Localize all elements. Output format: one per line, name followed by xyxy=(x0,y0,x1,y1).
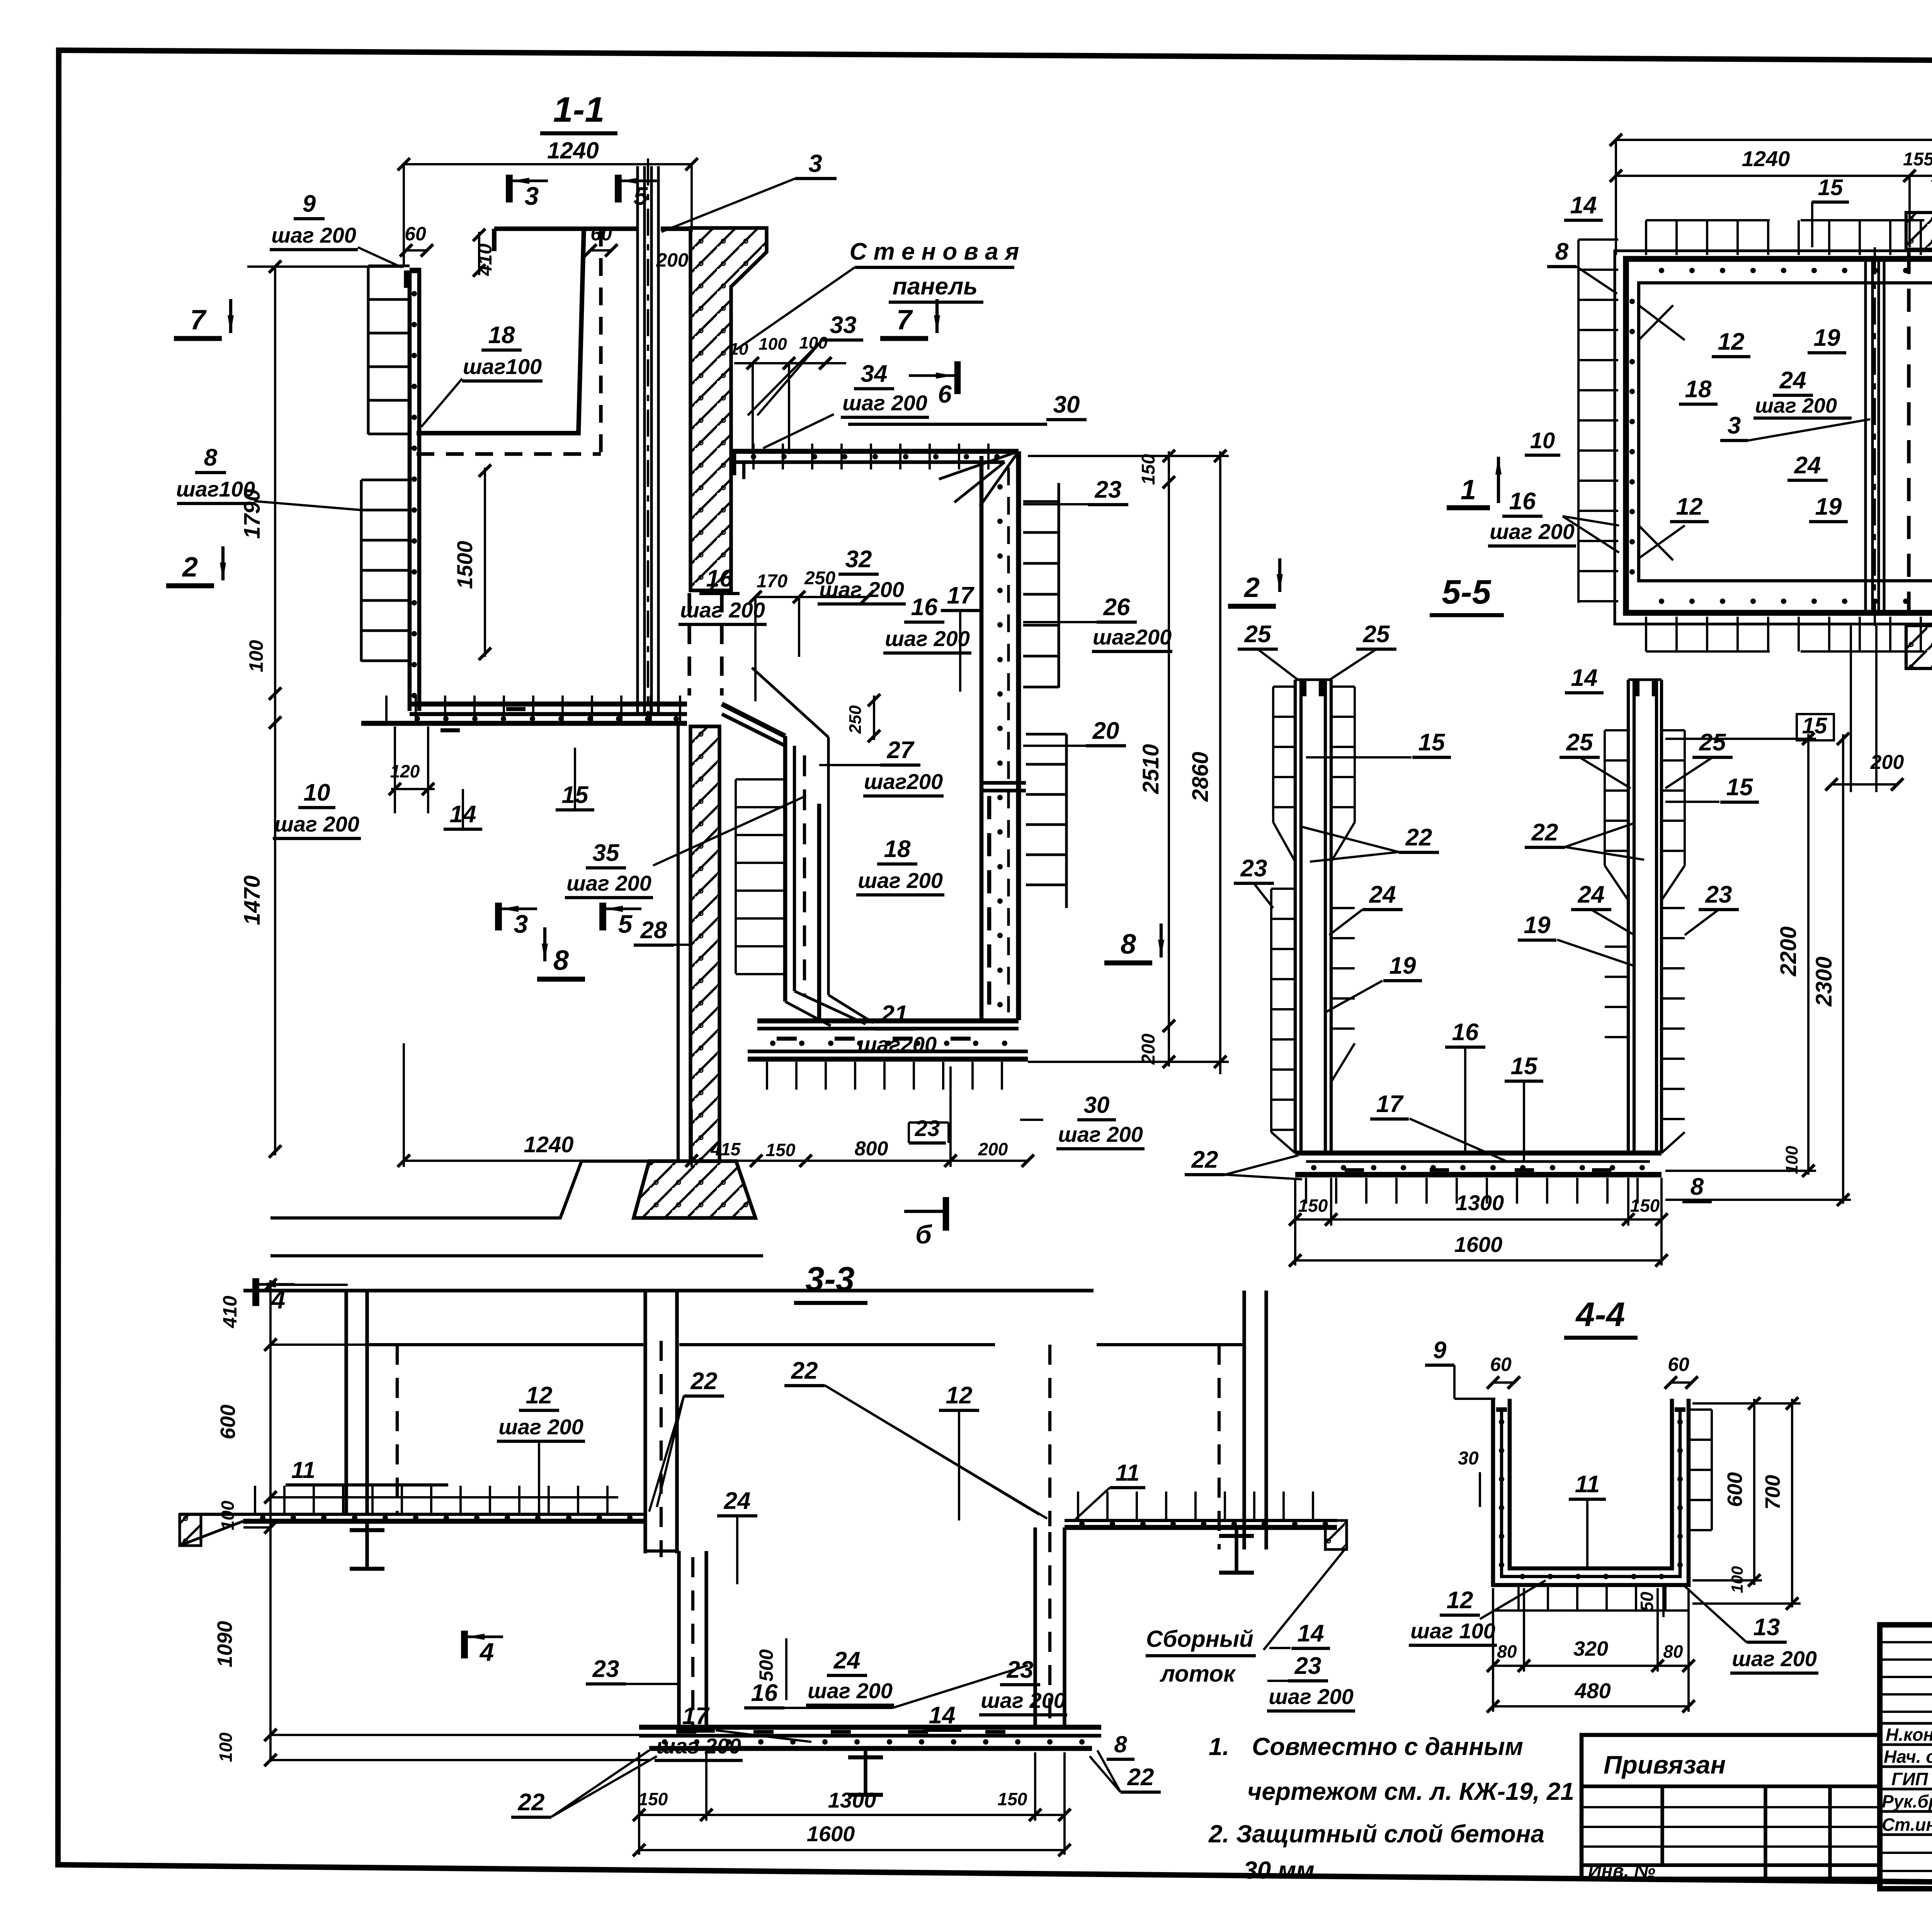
svg-text:200: 200 xyxy=(1870,751,1904,774)
svg-text:2510: 2510 xyxy=(1138,744,1163,794)
svg-text:25: 25 xyxy=(1363,621,1390,648)
5-5 wall taper diagonals right xyxy=(1605,866,1628,900)
3-3 right anchor I-beam xyxy=(1235,1527,1238,1573)
svg-text:320: 320 xyxy=(1573,1637,1608,1660)
svg-text:10: 10 xyxy=(304,779,330,806)
svg-text:2: 2 xyxy=(182,552,198,583)
1-1 floor band hooks xyxy=(440,728,460,733)
svg-text:12: 12 xyxy=(526,1382,553,1409)
svg-text:11: 11 xyxy=(291,1457,315,1483)
2-2 main thick rect xyxy=(1626,259,1932,613)
1-1 ground profile lines xyxy=(270,1161,649,1218)
svg-text:2860: 2860 xyxy=(1188,752,1213,802)
4-4 right ladder xyxy=(1711,1410,1713,1530)
svg-text:60: 60 xyxy=(1668,1354,1689,1375)
svg-text:14: 14 xyxy=(1298,1620,1324,1647)
1-1 floor step diagonals xyxy=(722,704,785,736)
svg-text:Ст.инж.: Ст.инж. xyxy=(1882,1815,1932,1835)
1-1 right band hooks xyxy=(732,451,736,475)
1-1 bottom band hook dashes xyxy=(777,1037,797,1041)
svg-text:1240: 1240 xyxy=(1742,146,1790,171)
svg-text:13: 13 xyxy=(1753,1614,1780,1641)
svg-text:60: 60 xyxy=(1490,1354,1512,1375)
svg-text:16: 16 xyxy=(751,1680,778,1706)
privyazan table box xyxy=(1582,1735,1880,1879)
1-1 left wall rebar L-bar xyxy=(408,270,412,711)
1-1 right wall joint line xyxy=(980,781,1026,784)
svg-text:шаг 200: шаг 200 xyxy=(656,1734,741,1758)
svg-text:155: 155 xyxy=(1903,149,1932,170)
svg-text:100: 100 xyxy=(759,335,787,354)
svg-text:24: 24 xyxy=(1369,881,1396,908)
svg-text:4-4: 4-4 xyxy=(1575,1295,1625,1333)
svg-text:3: 3 xyxy=(808,150,822,177)
svg-text:22: 22 xyxy=(1191,1146,1218,1173)
svg-text:12: 12 xyxy=(1447,1587,1473,1614)
svg-text:25: 25 xyxy=(1699,729,1726,756)
svg-text:500: 500 xyxy=(755,1649,777,1682)
svg-text:20: 20 xyxy=(1092,718,1119,744)
svg-text:8: 8 xyxy=(1121,929,1136,960)
svg-text:19: 19 xyxy=(1815,493,1842,520)
svg-text:30: 30 xyxy=(1053,391,1080,418)
1-1 marker b bottom xyxy=(904,1210,946,1213)
svg-text:100: 100 xyxy=(799,333,828,352)
5-5 wall taper diagonals left xyxy=(1273,822,1295,862)
1-1 bottom-right pit outline xyxy=(817,804,821,1020)
1-1 right wall dashed lower xyxy=(987,796,992,1020)
3-3 top slab line xyxy=(243,1289,1094,1292)
svg-text:шаг 200: шаг 200 xyxy=(1755,394,1837,417)
1-1 cut flag 3 bottom xyxy=(495,903,502,930)
svg-text:1-1: 1-1 xyxy=(553,90,605,129)
svg-text:17: 17 xyxy=(682,1703,710,1730)
svg-text:30 мм: 30 мм xyxy=(1243,1856,1315,1884)
svg-text:22: 22 xyxy=(1127,1764,1154,1791)
svg-text:26: 26 xyxy=(1103,594,1130,621)
svg-text:600: 600 xyxy=(216,1405,240,1439)
svg-text:1300: 1300 xyxy=(828,1788,876,1812)
svg-text:12: 12 xyxy=(1718,328,1745,355)
svg-text:28: 28 xyxy=(640,917,667,944)
1-1 recess outline xyxy=(417,229,584,433)
3-3 left wall xyxy=(344,1291,348,1515)
3-3 right wall xyxy=(1242,1291,1246,1549)
svg-text:27: 27 xyxy=(887,737,915,764)
svg-text:1240: 1240 xyxy=(524,1132,573,1157)
svg-text:шаг 200: шаг 200 xyxy=(858,868,943,893)
svg-text:шаг 200: шаг 200 xyxy=(566,871,651,895)
svg-text:8: 8 xyxy=(1114,1731,1127,1757)
4-4 dims right 600 700 xyxy=(1753,1399,1755,1585)
svg-text:19: 19 xyxy=(1814,325,1840,351)
svg-text:1240: 1240 xyxy=(547,138,599,163)
1-1 wall joint bundle xyxy=(636,166,639,713)
svg-text:Нач. о-д: Нач. о-д xyxy=(1884,1747,1932,1767)
title block left table rows xyxy=(1880,1641,1932,1643)
svg-text:150: 150 xyxy=(998,1789,1027,1809)
svg-text:Инв. №: Инв. № xyxy=(1588,1861,1655,1881)
svg-text:шаг200: шаг200 xyxy=(1093,625,1172,649)
svg-text:250: 250 xyxy=(804,568,835,588)
3-3 pit left wall xyxy=(677,1551,680,1727)
3-3 left dim chain xyxy=(269,1280,272,1762)
1-1 right ladder boxes xyxy=(1057,483,1060,688)
svg-text:3: 3 xyxy=(525,182,539,210)
1-1 right top band rebar xyxy=(731,449,1019,454)
svg-text:шаг 200: шаг 200 xyxy=(808,1679,893,1703)
1-1 wall top hook xyxy=(404,270,410,288)
1-1 inner ladder boxes xyxy=(735,779,737,974)
1-1 bottom dim chain xyxy=(404,1160,1028,1162)
svg-text:шаг100: шаг100 xyxy=(176,477,255,501)
2-2 top band dots xyxy=(1659,268,1664,273)
svg-text:25: 25 xyxy=(1244,621,1272,648)
svg-text:415: 415 xyxy=(711,1139,741,1159)
svg-text:шаг 200: шаг 200 xyxy=(498,1415,583,1439)
1-1 lower wall inner lines xyxy=(677,723,680,1161)
svg-text:1500: 1500 xyxy=(452,541,477,589)
2-2 panel hatch top xyxy=(1906,213,1932,249)
svg-text:25: 25 xyxy=(1566,729,1594,756)
svg-text:2: 2 xyxy=(1243,572,1260,603)
3-3 cut flag 4 bottom xyxy=(461,1631,468,1658)
svg-text:34: 34 xyxy=(861,361,888,387)
svg-text:23: 23 xyxy=(592,1656,619,1682)
svg-text:250: 250 xyxy=(846,705,865,734)
3-3 left slab band xyxy=(243,1513,645,1516)
1-1 right dim chain 150 2510 200 xyxy=(1168,451,1170,1066)
3-3 right band end hatch xyxy=(1325,1520,1347,1549)
svg-text:19: 19 xyxy=(1524,912,1551,939)
svg-text:17: 17 xyxy=(1376,1091,1404,1117)
svg-text:700: 700 xyxy=(1761,1475,1784,1510)
svg-text:2200: 2200 xyxy=(1776,926,1801,976)
svg-text:100: 100 xyxy=(218,1500,238,1530)
4-4 bottom comb xyxy=(1517,1585,1520,1611)
svg-text:10: 10 xyxy=(730,340,748,359)
svg-text:9: 9 xyxy=(1433,1337,1447,1364)
svg-text:шаг 200: шаг 200 xyxy=(1490,519,1575,544)
title block outer xyxy=(1880,1625,1932,1889)
svg-text:5: 5 xyxy=(618,910,633,938)
1-1 cut flag 5 top xyxy=(615,175,622,202)
svg-text:шаг 100: шаг 100 xyxy=(1410,1619,1495,1643)
svg-text:170: 170 xyxy=(757,571,787,592)
1-1 left ladder upper xyxy=(367,266,369,434)
svg-text:ГИП: ГИП xyxy=(1891,1769,1928,1789)
svg-text:шаг 200: шаг 200 xyxy=(274,812,359,836)
svg-text:24: 24 xyxy=(833,1647,861,1674)
svg-text:11: 11 xyxy=(1575,1471,1600,1498)
1-1 cut flag 5 bottom xyxy=(599,903,606,930)
2-2 center joint bundle xyxy=(1864,259,1867,613)
3-3 pit bottom I-beam xyxy=(864,1748,867,1795)
svg-text:Сборный: Сборный xyxy=(1146,1626,1253,1652)
svg-text:16: 16 xyxy=(911,594,938,621)
3-3 right slab band xyxy=(1065,1519,1337,1522)
3-3 second slab line xyxy=(365,1343,643,1346)
svg-text:шаг 200: шаг 200 xyxy=(885,626,970,651)
svg-text:8: 8 xyxy=(553,945,569,976)
2-2 panel hatch bottom xyxy=(1906,626,1932,668)
svg-text:24: 24 xyxy=(724,1488,751,1514)
svg-text:33: 33 xyxy=(830,312,857,338)
svg-text:15: 15 xyxy=(1726,774,1753,801)
2-2 outer rect xyxy=(1615,251,1932,624)
3-3 cut flag 4 top xyxy=(252,1278,259,1306)
1-1 inner corner fans bottom xyxy=(785,1002,831,1026)
svg-text:1: 1 xyxy=(1461,474,1476,505)
5-5 total dim 1600 xyxy=(1295,1259,1662,1262)
3-3 total dim 1600 xyxy=(639,1849,1065,1851)
svg-text:7: 7 xyxy=(896,304,913,335)
svg-text:1.: 1. xyxy=(1209,1733,1229,1760)
3-3 left anchor I-beam xyxy=(365,1521,369,1569)
svg-text:23: 23 xyxy=(1095,476,1122,503)
2-2 bottom band dots xyxy=(1659,599,1664,604)
1-1 right wall corner fan xyxy=(980,451,1019,506)
1-1 left dim chain xyxy=(274,267,276,1155)
svg-text:30: 30 xyxy=(1084,1092,1110,1118)
4-4 U channel outline xyxy=(1493,1399,1689,1585)
svg-text:15: 15 xyxy=(1511,1053,1538,1080)
3-3 bottom dim chain xyxy=(639,1814,1065,1816)
svg-text:23: 23 xyxy=(1294,1653,1321,1679)
svg-text:480: 480 xyxy=(1574,1679,1611,1703)
1-1 bottom slab band right xyxy=(757,1019,1019,1024)
5-5 bottom slab xyxy=(1295,1151,1662,1156)
1-1 panel dashed continuation xyxy=(687,593,691,696)
svg-text:17: 17 xyxy=(947,582,975,609)
svg-text:1090: 1090 xyxy=(213,1621,236,1667)
svg-text:23: 23 xyxy=(1240,855,1267,882)
svg-text:200: 200 xyxy=(1138,1034,1159,1065)
svg-text:16: 16 xyxy=(1452,1019,1479,1046)
svg-text:лоток: лоток xyxy=(1160,1661,1236,1687)
svg-text:150: 150 xyxy=(638,1789,668,1809)
svg-text:шаг 200: шаг 200 xyxy=(981,1688,1066,1713)
1-1 haunch thin outline xyxy=(752,668,828,737)
svg-text:30: 30 xyxy=(1458,1448,1479,1469)
svg-text:шаг100: шаг100 xyxy=(463,354,542,379)
svg-text:22: 22 xyxy=(1531,819,1558,846)
5-5 bottom dim chain xyxy=(1295,1218,1662,1221)
svg-text:80: 80 xyxy=(1497,1641,1517,1662)
2-2 inner rect xyxy=(1639,283,1932,581)
svg-text:шаг200: шаг200 xyxy=(864,769,943,794)
svg-text:3: 3 xyxy=(1728,412,1741,439)
1-1 wall panel hatched upper xyxy=(690,228,767,590)
svg-text:1600: 1600 xyxy=(1454,1232,1503,1257)
svg-text:50: 50 xyxy=(1637,1592,1657,1612)
svg-text:18: 18 xyxy=(488,322,515,349)
svg-text:200: 200 xyxy=(656,249,689,271)
5-5 ladders left wall xyxy=(1272,687,1274,822)
svg-text:9: 9 xyxy=(303,190,316,217)
svg-text:8: 8 xyxy=(1690,1173,1704,1200)
svg-text:4: 4 xyxy=(479,1638,494,1666)
svg-text:150: 150 xyxy=(1138,454,1159,485)
svg-text:16: 16 xyxy=(706,565,733,592)
svg-text:16: 16 xyxy=(1509,488,1536,515)
4-4 rebar hooks top xyxy=(1496,1407,1507,1412)
svg-text:5-5: 5-5 xyxy=(1442,573,1491,611)
svg-text:8: 8 xyxy=(1555,238,1569,265)
svg-text:21: 21 xyxy=(881,1001,908,1027)
svg-text:шаг 200: шаг 200 xyxy=(1058,1122,1143,1146)
1-1 lower hatched wall strip xyxy=(690,726,719,1161)
2-2 bottom comb xyxy=(1645,617,1647,651)
svg-text:6: 6 xyxy=(938,380,952,408)
svg-text:410: 410 xyxy=(219,1296,241,1328)
svg-text:80: 80 xyxy=(1663,1641,1683,1662)
3-3 left band end hatch xyxy=(180,1514,201,1546)
svg-text:шаг 200: шаг 200 xyxy=(1269,1684,1354,1709)
svg-text:200: 200 xyxy=(978,1139,1008,1159)
svg-text:1470: 1470 xyxy=(240,875,265,925)
2-2 left band dots xyxy=(1629,299,1635,304)
3-3 central wall xyxy=(643,1291,647,1553)
2-2 dashed panel lines xyxy=(1907,251,1910,624)
4-4 bottom dims xyxy=(1493,1665,1689,1667)
svg-text:12: 12 xyxy=(1676,493,1703,520)
svg-text:1300: 1300 xyxy=(1456,1190,1504,1215)
svg-text:60: 60 xyxy=(405,223,426,245)
svg-text:14: 14 xyxy=(1570,192,1597,219)
svg-text:22: 22 xyxy=(518,1789,545,1816)
4-4 rebar U inside xyxy=(1502,1410,1680,1577)
svg-text:150: 150 xyxy=(766,1140,796,1160)
svg-text:23: 23 xyxy=(1007,1656,1034,1683)
1-1 dashed panel boundary xyxy=(599,229,602,454)
svg-text:чертежом см. л. КЖ-19, 21: чертежом см. л. КЖ-19, 21 xyxy=(1247,1777,1574,1805)
svg-text:22: 22 xyxy=(690,1368,718,1395)
1-1 cut flag 3 top xyxy=(506,175,513,202)
3-3 pit bottom band xyxy=(639,1725,1101,1730)
svg-text:Привязан: Привязан xyxy=(1604,1750,1726,1779)
1-1 bottom band comb xyxy=(766,1062,768,1090)
svg-text:б: б xyxy=(915,1220,932,1249)
2-2 top dim chain xyxy=(1616,175,1932,177)
svg-text:18: 18 xyxy=(1685,376,1712,403)
5-5 left U wall rebar xyxy=(1294,680,1297,1153)
svg-text:Совместно с данным: Совместно с данным xyxy=(1252,1733,1523,1760)
5-5 right U wall rebar xyxy=(1627,680,1630,1153)
svg-text:18: 18 xyxy=(884,836,911,862)
svg-text:3: 3 xyxy=(514,910,528,938)
svg-text:23: 23 xyxy=(915,1116,940,1141)
4-4 total dim 480 xyxy=(1493,1705,1689,1708)
1-1 floor slab band xyxy=(410,702,687,707)
5-5 right dims 2200 2300 xyxy=(1807,734,1810,1175)
svg-text:8: 8 xyxy=(204,444,218,471)
1-1 right wall rebar xyxy=(980,456,984,1020)
svg-text:14: 14 xyxy=(929,1702,956,1729)
svg-text:32: 32 xyxy=(845,546,872,573)
5-5 left wall top hooks xyxy=(1301,680,1306,696)
svg-text:150: 150 xyxy=(1298,1196,1328,1216)
svg-text:панель: панель xyxy=(893,273,978,300)
svg-text:шаг 200: шаг 200 xyxy=(271,223,356,247)
svg-text:150: 150 xyxy=(1630,1196,1660,1216)
svg-text:800: 800 xyxy=(855,1138,888,1160)
svg-text:Н.контр.: Н.контр. xyxy=(1886,1725,1932,1745)
2-2 top comb xyxy=(1645,220,1647,255)
svg-text:22: 22 xyxy=(1405,824,1432,851)
svg-text:14: 14 xyxy=(1571,665,1598,691)
svg-text:22: 22 xyxy=(791,1357,818,1384)
5-5 left wall lower ladders xyxy=(1270,889,1272,1132)
svg-text:шаг 200: шаг 200 xyxy=(842,391,927,415)
2-2 corner fans left xyxy=(1639,305,1685,340)
svg-text:600: 600 xyxy=(1723,1472,1747,1507)
3-3 pit right wall xyxy=(1033,1527,1037,1727)
svg-text:15: 15 xyxy=(1818,175,1843,200)
svg-text:2300: 2300 xyxy=(1811,956,1837,1007)
svg-text:60: 60 xyxy=(590,223,612,245)
svg-text:1600: 1600 xyxy=(807,1821,855,1846)
svg-text:24: 24 xyxy=(1578,881,1605,908)
svg-text:35: 35 xyxy=(593,840,620,866)
1-1 left ladder lower xyxy=(360,480,362,662)
svg-text:5: 5 xyxy=(634,182,648,210)
2-2 left ladder xyxy=(1577,240,1580,603)
privyazan grid xyxy=(1582,1784,1880,1788)
svg-text:24: 24 xyxy=(1794,452,1821,479)
svg-text:12: 12 xyxy=(946,1382,973,1409)
svg-text:7: 7 xyxy=(190,304,207,335)
5-5 ladders right wall xyxy=(1604,730,1606,866)
svg-text:19: 19 xyxy=(1389,952,1416,979)
svg-text:шаг 200: шаг 200 xyxy=(1732,1646,1817,1671)
svg-text:15: 15 xyxy=(1418,729,1446,756)
svg-text:10: 10 xyxy=(1530,428,1555,453)
svg-text:24: 24 xyxy=(1779,367,1806,394)
svg-text:Рук.бр.: Рук.бр. xyxy=(1882,1791,1932,1811)
svg-text:С т е н о в а я: С т е н о в а я xyxy=(850,238,1019,265)
1-1 footing boot xyxy=(634,1161,755,1218)
svg-text:100: 100 xyxy=(216,1732,236,1762)
5-5 slab comb below xyxy=(1305,1178,1307,1204)
svg-text:2. Защитный слой бетона: 2. Защитный слой бетона xyxy=(1208,1820,1544,1848)
svg-text:11: 11 xyxy=(1116,1460,1139,1486)
svg-text:23: 23 xyxy=(1705,881,1732,908)
1-1 inner wall face xyxy=(783,736,787,1002)
svg-text:100: 100 xyxy=(245,640,267,672)
